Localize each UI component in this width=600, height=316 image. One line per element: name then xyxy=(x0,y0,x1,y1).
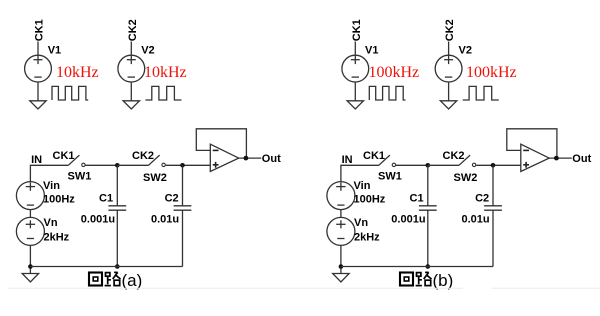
node A junction dot (C1 top) xyxy=(426,163,431,168)
ground rail wire xyxy=(30,266,182,268)
voltage source V1 (CK1 clock) xyxy=(25,55,52,82)
svg-text:Out: Out xyxy=(262,153,281,165)
svg-text:SW1: SW1 xyxy=(378,170,402,182)
svg-text:0.001u: 0.001u xyxy=(391,214,425,226)
junction dot at output node xyxy=(244,156,249,161)
svg-text:C1: C1 xyxy=(410,193,424,205)
svg-text:C2: C2 xyxy=(165,193,179,205)
svg-text:0.001u: 0.001u xyxy=(81,214,115,226)
ground xyxy=(347,101,363,109)
svg-text:CK2: CK2 xyxy=(127,19,139,41)
caption kanji 路 xyxy=(105,272,121,285)
svg-text:SW2: SW2 xyxy=(143,172,167,184)
capacitor C1 xyxy=(108,165,126,266)
svg-text:100kHz: 100kHz xyxy=(466,64,517,81)
clock waveform glyph xyxy=(52,86,88,100)
svg-text:C1: C1 xyxy=(99,193,113,205)
op-amp U (circuit b) xyxy=(521,144,549,171)
svg-text:V1: V1 xyxy=(48,45,61,57)
wire SW2 to op-amp + input xyxy=(166,164,211,166)
svg-text:(b): (b) xyxy=(433,271,454,290)
switch SW2 contact xyxy=(472,163,475,166)
svg-text:CK2: CK2 xyxy=(132,150,154,162)
switch SW2 arm xyxy=(149,155,160,165)
junction dot at ground node xyxy=(339,264,344,269)
switch SW1 arm xyxy=(68,155,79,165)
voltage source Vn xyxy=(327,217,355,245)
svg-text:0.01u: 0.01u xyxy=(462,214,490,226)
capacitor C2 xyxy=(174,165,192,266)
caption kanji 回 xyxy=(89,273,102,286)
svg-text:2kHz: 2kHz xyxy=(354,232,380,244)
junction dot at output node xyxy=(554,156,559,161)
caption kanji 路 xyxy=(416,272,432,285)
svg-text:Vin: Vin xyxy=(354,180,371,192)
svg-text:CK2: CK2 xyxy=(443,150,465,162)
ground xyxy=(22,274,38,282)
wire CK2 to V2 top xyxy=(130,42,132,56)
junction dot C1 bottom xyxy=(115,264,120,269)
switch SW1 arm xyxy=(379,155,390,165)
switch SW1 contact xyxy=(82,163,85,166)
switch SW1 contact xyxy=(392,163,395,166)
clock waveform glyph xyxy=(145,86,181,100)
wire CK2 to V2 top xyxy=(448,42,450,56)
voltage source Vin xyxy=(327,182,355,210)
op-amp feedback wire (- input to output) xyxy=(507,129,557,158)
wire V2 to ground xyxy=(448,82,450,101)
node B junction dot (C2 top) xyxy=(491,163,496,168)
svg-text:IN: IN xyxy=(342,154,353,166)
ground xyxy=(333,274,349,282)
svg-text:100Hz: 100Hz xyxy=(43,194,75,206)
voltage source Vin xyxy=(16,182,44,210)
ground xyxy=(123,101,139,109)
faint separator line right xyxy=(492,287,600,289)
svg-text:SW2: SW2 xyxy=(454,172,478,184)
svg-text:CK1: CK1 xyxy=(53,150,75,162)
svg-text:V1: V1 xyxy=(365,45,378,57)
wire CK1 to V1 top xyxy=(354,42,356,56)
svg-text:C2: C2 xyxy=(475,193,489,205)
wire node A to SW2 xyxy=(117,164,148,166)
ground xyxy=(30,101,46,109)
caption kanji 回 xyxy=(400,273,413,286)
switch SW2 contact xyxy=(162,163,165,166)
voltage source Vn xyxy=(16,217,44,245)
wire SW1 to node A xyxy=(396,164,428,166)
wire V1 to ground xyxy=(37,82,39,101)
wire V1 to ground xyxy=(354,82,356,101)
junction dot at ground node xyxy=(28,264,33,269)
switch SW2 arm xyxy=(459,155,470,165)
svg-text:Vn: Vn xyxy=(44,217,58,229)
svg-text:2kHz: 2kHz xyxy=(44,232,70,244)
wire IN corner down to Vin xyxy=(341,165,379,181)
svg-text:SW1: SW1 xyxy=(68,170,92,182)
clock waveform glyph xyxy=(369,86,405,100)
op-amp U (circuit a) xyxy=(210,144,238,171)
svg-text:100kHz: 100kHz xyxy=(369,64,420,81)
op-amp feedback wire (- input to output) xyxy=(196,129,246,158)
wire IN corner down to Vin xyxy=(30,165,68,181)
svg-text:Out: Out xyxy=(572,153,591,165)
svg-text:10kHz: 10kHz xyxy=(144,64,187,81)
wire node A to SW2 xyxy=(428,164,459,166)
wire SW2 to op-amp + input xyxy=(476,164,521,166)
capacitor C1 xyxy=(419,165,437,266)
svg-text:IN: IN xyxy=(31,154,42,166)
wire Vn to ground rail xyxy=(29,245,31,273)
svg-text:Vn: Vn xyxy=(354,217,368,229)
wire SW1 to node A xyxy=(86,164,118,166)
clock waveform glyph xyxy=(463,86,499,100)
svg-text:CK1: CK1 xyxy=(34,19,46,41)
wire Vin to Vn xyxy=(340,210,342,218)
wire op-amp output to Out xyxy=(239,157,262,159)
node B junction dot (C2 top) xyxy=(180,163,185,168)
svg-text:V2: V2 xyxy=(459,45,472,57)
wire CK1 to V1 top xyxy=(37,42,39,56)
svg-text:CK1: CK1 xyxy=(351,19,363,41)
svg-text:(a): (a) xyxy=(122,271,143,290)
faint separator line xyxy=(8,287,463,289)
ground xyxy=(440,101,456,109)
wire Vin to Vn xyxy=(29,210,31,218)
voltage source V2 (CK2 clock) xyxy=(118,55,145,82)
svg-text:10kHz: 10kHz xyxy=(56,64,99,81)
node A junction dot (C1 top) xyxy=(115,163,120,168)
voltage source V2 (CK2 clock) xyxy=(435,55,462,82)
svg-text:0.01u: 0.01u xyxy=(151,214,179,226)
svg-text:CK2: CK2 xyxy=(444,19,456,41)
ground rail wire xyxy=(341,266,493,268)
svg-text:CK1: CK1 xyxy=(363,150,385,162)
junction dot C1 bottom xyxy=(426,264,431,269)
wire op-amp output to Out xyxy=(549,157,572,159)
svg-text:V2: V2 xyxy=(141,45,154,57)
voltage source V1 (CK1 clock) xyxy=(342,55,369,82)
wire Vn to ground rail xyxy=(340,245,342,273)
svg-text:Vin: Vin xyxy=(43,180,60,192)
svg-text:100Hz: 100Hz xyxy=(354,194,386,206)
capacitor C2 xyxy=(484,165,502,266)
wire V2 to ground xyxy=(130,82,132,101)
